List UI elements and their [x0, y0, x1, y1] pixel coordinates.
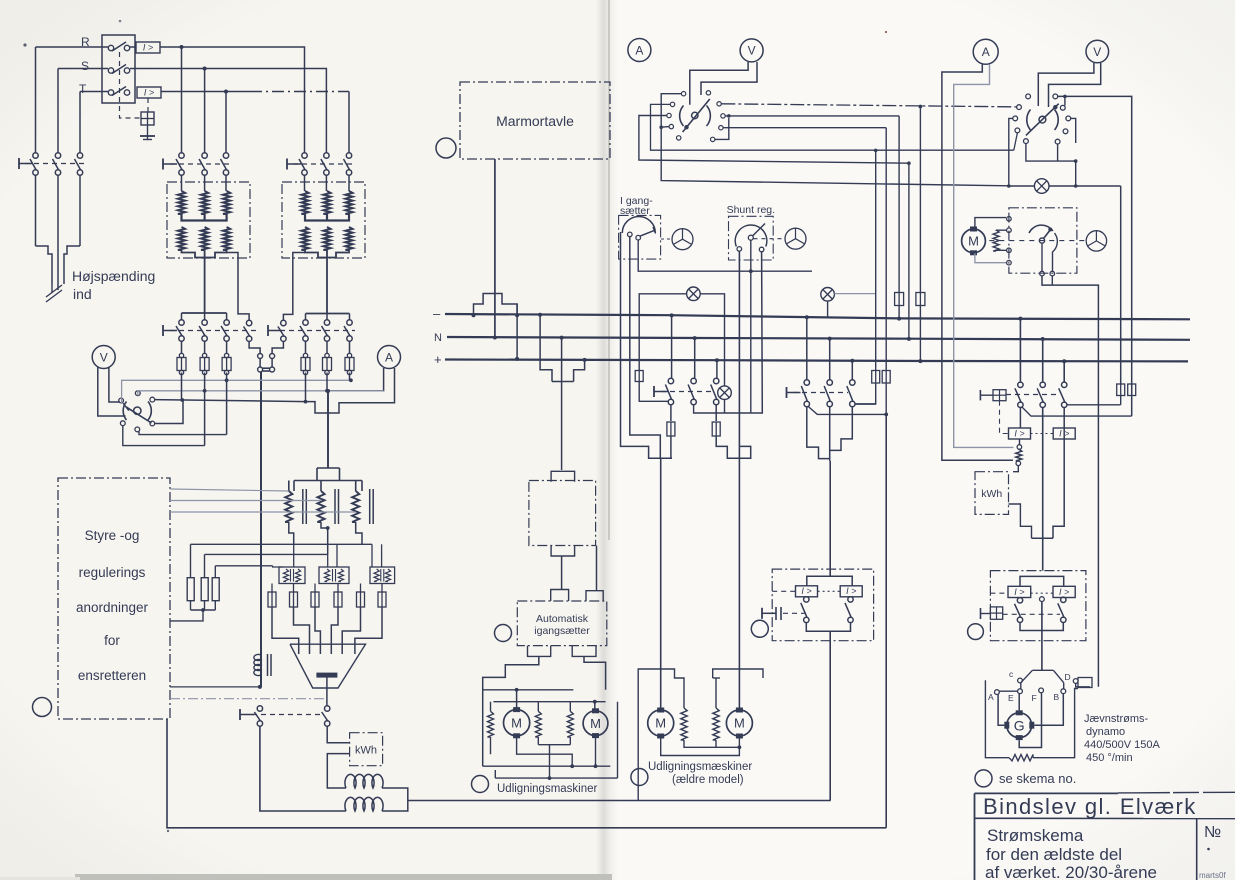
DC switch L — [254, 706, 262, 726]
label kWh right — [981, 488, 1002, 500]
funnel linkage — [793, 392, 848, 394]
wire motor34 bottom — [661, 738, 742, 756]
label dynamo 4 — [1086, 752, 1133, 764]
main breaker box — [102, 35, 135, 103]
transformer T1 primary bus — [182, 214, 227, 221]
wire dist1 feed minus — [670, 313, 674, 378]
wire gen down — [1041, 602, 1043, 671]
terminal F — [1032, 688, 1044, 703]
disconnect actuator HV — [19, 158, 33, 169]
wire LV fuse lead 5 — [325, 341, 329, 375]
fuse feeder b — [882, 371, 890, 384]
marble panel box — [460, 82, 610, 159]
wire R mid drop — [181, 47, 183, 153]
LV switch linkage right — [280, 330, 355, 332]
wire rectifier feeder — [260, 372, 262, 687]
label bus minus — [433, 306, 441, 321]
wire relay split — [807, 576, 852, 586]
svg-text:440/500V 150A: 440/500V 150A — [1084, 739, 1161, 751]
label anordninger — [76, 600, 149, 615]
apparatus top connector — [551, 471, 575, 482]
disconnect switch T1-T — [221, 153, 229, 175]
label Marmortavle — [496, 113, 574, 129]
smoothing reactor — [254, 654, 271, 676]
wire relay out — [829, 631, 831, 800]
wire T2 in R — [304, 175, 306, 191]
label igangsaetter — [534, 625, 590, 637]
title No — [1204, 824, 1221, 841]
wire funnel feed minus — [805, 315, 809, 380]
wire DC negative — [260, 726, 346, 811]
wire coil fuse lead 3 — [314, 584, 316, 593]
wire motor3 frame — [638, 669, 684, 801]
wire coil fuse lead 5 — [360, 584, 362, 593]
wire control to switch — [170, 698, 326, 700]
svg-text:N: N — [434, 332, 442, 344]
svg-text:ind: ind — [73, 286, 92, 302]
label bus plus — [434, 352, 442, 367]
selector SW3 body — [1026, 104, 1059, 136]
transformer T2 secondary winding 2 — [323, 227, 330, 250]
junction ballast — [201, 608, 205, 612]
breaker contact T — [108, 87, 129, 96]
fuse rectifier 1 — [268, 592, 276, 607]
junction tap plus — [583, 358, 587, 362]
wire S phase — [58, 69, 326, 153]
starter-wheel link — [661, 238, 671, 240]
svg-text:M: M — [734, 716, 745, 731]
wire HV-S down — [57, 175, 59, 268]
junction S-mid — [203, 67, 207, 71]
wire HV merge — [36, 246, 81, 290]
svg-text:A: A — [385, 350, 393, 364]
wire SW2 w5 — [721, 104, 1019, 107]
wire reg feeder — [327, 391, 329, 468]
auto starter bottom conn 2 — [572, 646, 596, 657]
svg-text:Marmortavle: Marmortavle — [496, 113, 574, 129]
LV switch 7 — [322, 320, 330, 341]
wire gen merge — [1032, 537, 1054, 539]
junction rail y401 b — [304, 400, 308, 404]
junction reg bottom — [326, 526, 330, 530]
terminal B — [1054, 689, 1066, 702]
disconnect actuator T2 — [287, 159, 301, 170]
junction tap minus — [538, 313, 542, 317]
fuse rectifier 4 — [334, 592, 342, 607]
disconnect switch HV-T — [75, 153, 83, 175]
wire drop x875 — [874, 149, 878, 371]
junction lamp4 a — [1007, 184, 1011, 188]
wire M2 feed — [584, 656, 606, 689]
wire anode 5 — [342, 607, 360, 654]
LV switch 8 — [344, 320, 352, 341]
motor M1 — [503, 707, 529, 738]
svg-text:B: B — [1054, 692, 1060, 702]
wire HV-T down — [79, 175, 81, 246]
wire SW2 w3 — [639, 116, 909, 164]
wire coilbox1 feeds — [273, 544, 294, 567]
label ensretteren — [78, 668, 146, 683]
wire pyramid right drop — [516, 304, 518, 359]
wire shunt drop 1 — [738, 251, 740, 446]
LV switch 4 — [244, 320, 252, 341]
wire M1 feed — [483, 656, 539, 766]
gen breaker cabinet — [990, 571, 1086, 641]
svg-text:Udligningsmæskiner: Udligningsmæskiner — [648, 761, 752, 773]
fuse dist1a — [667, 422, 675, 436]
svg-text:for den ældste del: for den ældste del — [986, 845, 1122, 864]
LV switch 2 — [199, 320, 207, 341]
svg-text:I >: I > — [143, 42, 153, 52]
wire T2 secondary out left — [283, 258, 292, 320]
svg-text:I >: I > — [144, 87, 154, 97]
breaker contact R — [108, 42, 129, 51]
svg-text:Jævnstrøms-: Jævnstrøms- — [1084, 713, 1149, 725]
ammeter A2 — [628, 39, 651, 62]
wire coilbox2 feeds — [328, 544, 337, 567]
junction pyramid right — [515, 313, 519, 317]
svg-text:I >: I > — [846, 586, 856, 596]
disconnect switch T1-S — [199, 153, 207, 175]
transformer T1 primary winding 3 — [223, 191, 230, 214]
junction pyramid left — [472, 313, 476, 317]
signal lamp 4 — [1034, 179, 1049, 194]
wire terminal AE — [999, 690, 1017, 692]
transformer T2 primary winding 2 — [323, 191, 330, 214]
wire LV fuse lead 6 — [347, 341, 351, 375]
svg-text:M: M — [590, 716, 601, 731]
wire LV5 merge — [272, 341, 283, 353]
label udligningsmaskiner 2 — [648, 761, 752, 773]
svg-text:V: V — [100, 350, 108, 364]
wire SW2 w1 — [661, 94, 1009, 186]
dist1 linkage — [661, 391, 712, 393]
label aeldre model — [672, 774, 744, 786]
field circuit — [985, 680, 1078, 761]
disconnect switch HV-R — [30, 153, 38, 175]
voltmeter V3 — [1086, 40, 1109, 63]
label dynamo 3 — [1084, 739, 1161, 751]
label se skema — [999, 771, 1076, 786]
wire funnel diag tap — [808, 407, 886, 415]
wire relay feed — [829, 461, 831, 576]
series reactor 2 — [345, 797, 383, 811]
rectifier tank — [290, 644, 366, 688]
wire SW3 w1 — [1058, 96, 1132, 416]
wire pole1 drop — [181, 373, 183, 401]
DC switch linkage — [252, 714, 320, 716]
revision circle h — [975, 770, 992, 787]
wire tap N — [561, 338, 563, 470]
selector SW2 contacts — [667, 91, 725, 142]
fuse dist1c — [712, 422, 720, 436]
relay T linkage — [147, 98, 149, 112]
auto starter box — [517, 601, 607, 646]
wire lamp2 right — [834, 293, 875, 295]
transformer T2 secondary winding 3 — [345, 227, 352, 250]
starter dial — [622, 217, 655, 240]
wire gen split — [1020, 576, 1064, 585]
revision circle b — [436, 138, 456, 158]
breaker contact S — [108, 65, 129, 74]
junction M2 top — [593, 700, 597, 704]
wire V2 lead b — [701, 62, 757, 95]
node S label — [81, 59, 89, 73]
auto starter top conn 2 — [586, 591, 603, 601]
wire motor1 top bus — [483, 689, 574, 691]
wire T1 LV drops — [182, 313, 227, 320]
wire SW3 w5 — [1071, 118, 1076, 143]
wire funnel feed plus — [850, 359, 854, 380]
label automatisk — [536, 613, 589, 625]
wire control line 2 — [170, 500, 321, 502]
disconnect switch T2-R — [299, 153, 307, 175]
ballast resistor 3 — [212, 566, 219, 610]
junction rail y391 b — [325, 389, 329, 393]
svg-text:Bindslev gl. Elværk: Bindslev gl. Elværk — [983, 794, 1197, 819]
wire A1 lead b — [306, 368, 395, 413]
wire reg bottom 1 — [289, 522, 294, 544]
funnel actuator — [787, 387, 801, 398]
fuse LV 2 — [200, 358, 209, 371]
relay trip link — [783, 612, 806, 614]
wire SW2 w4 — [661, 126, 669, 129]
apparatus box — [529, 481, 596, 546]
svg-text:№: № — [1204, 824, 1221, 841]
label kWh DC — [355, 745, 377, 757]
LV switch 1 — [176, 320, 184, 341]
fuse cutout — [141, 112, 154, 125]
rheostat dial — [1029, 225, 1057, 271]
link terminals — [258, 354, 275, 373]
wire ballast bus — [170, 610, 215, 621]
balance resistor 1 — [681, 708, 687, 740]
M5 rheostat — [993, 228, 1011, 253]
wire M2 lead — [594, 702, 596, 709]
wire G bottom F — [1019, 693, 1041, 748]
transformer T2 primary winding 1 — [301, 191, 308, 214]
wire gen pole1 down — [1019, 407, 1021, 428]
svg-text:for: for — [104, 633, 120, 648]
fuse dist1 — [635, 371, 643, 382]
wire reg top right — [355, 481, 357, 492]
auto starter bottom conn 1 — [528, 646, 551, 657]
disconnect switch T2-S — [321, 153, 329, 175]
wire dist1c down — [715, 405, 717, 422]
wire marble pyramid — [474, 294, 518, 316]
label ind — [73, 286, 92, 302]
wire T1 in R — [181, 175, 183, 191]
junction rail y401 a — [180, 398, 184, 402]
junction pyramid plus — [515, 357, 519, 361]
gen trip linkage 2 — [1003, 613, 1060, 615]
disconnect switch HV-S — [53, 153, 61, 175]
title No dot — [1207, 848, 1210, 851]
contactor coil box 2 — [319, 567, 349, 584]
bus minus — [445, 314, 1190, 319]
gen switch c — [1059, 382, 1067, 407]
wire pole3 drop — [226, 373, 228, 435]
relay I> gen1 — [1009, 428, 1031, 439]
wire G right — [1034, 694, 1063, 726]
label for — [104, 633, 120, 648]
svg-text:marts0f: marts0f — [1199, 871, 1226, 880]
wire funnel feed N — [828, 337, 832, 380]
paper speck 1 — [23, 20, 121, 47]
svg-text:dynamo: dynamo — [1086, 726, 1125, 738]
fuse rectifier 5 — [357, 592, 365, 607]
label styre-og — [85, 528, 140, 543]
label shunt reg — [727, 204, 775, 216]
wire starter drop 2 — [630, 237, 661, 458]
DC switch actuator — [240, 709, 254, 720]
wire T1 in S — [204, 175, 206, 191]
wire SW3 w7 — [1057, 144, 1059, 161]
wire dist1 feed N — [693, 336, 697, 379]
relay switch R — [845, 597, 853, 623]
wire SW3 w2 — [1064, 96, 1066, 105]
dist switch 1a — [665, 378, 673, 404]
svg-text:Højspænding: Højspænding — [72, 268, 155, 284]
relay I> gen2 — [1053, 428, 1075, 439]
transformer T2 secondary winding 1 — [301, 227, 308, 250]
fuse LV 3 — [222, 358, 231, 371]
wire rail y445 — [123, 426, 205, 446]
terminal c — [1009, 669, 1022, 683]
auto starter top conn 1 — [551, 590, 569, 602]
disconnect linkage T1 — [170, 163, 232, 165]
wire motorfeed b — [716, 436, 751, 710]
revision circle d — [472, 776, 489, 793]
disconnect switch T2-T — [344, 153, 352, 175]
relay switch L — [801, 597, 809, 623]
junction rail y380 a — [225, 378, 229, 382]
paper speck 2 — [167, 31, 887, 832]
bus N — [447, 337, 1190, 340]
svg-text:kWh: kWh — [981, 488, 1002, 500]
wire drop x875b — [855, 383, 876, 404]
wire motor4 frame top — [713, 669, 763, 708]
svg-text:Strømskema: Strømskema — [987, 826, 1084, 845]
wire coil fuse lead 1 — [271, 584, 273, 593]
wire DC positive jog — [327, 726, 349, 743]
signal lamp 3 — [718, 386, 732, 400]
wire anode 6 — [355, 607, 382, 654]
wire SW2 w2 — [651, 104, 1014, 150]
wire T2 LV drops — [306, 314, 350, 320]
wire rail y434 — [139, 432, 227, 435]
LV switch actuator left — [163, 325, 177, 336]
wire drop lamp right — [1120, 396, 1122, 405]
ballast resistor 2 — [201, 554, 208, 610]
wire coil fuse lead 6 — [381, 584, 383, 593]
wire gen pole2 feed — [1041, 337, 1045, 382]
relay I> right — [840, 586, 862, 597]
wire lamp3 bottom — [724, 400, 726, 413]
wire M2 bottom — [595, 738, 597, 767]
node R label — [81, 35, 90, 49]
HV feeder arrow — [46, 284, 62, 302]
wire tap plus — [574, 360, 585, 382]
wire gen pole1 feed — [1018, 317, 1022, 382]
svg-text:Styre -og: Styre -og — [85, 528, 140, 543]
svg-text:V: V — [748, 44, 756, 58]
overcurrent relay I> T — [137, 87, 161, 98]
wire DC return — [167, 719, 886, 828]
svg-text:E: E — [1008, 693, 1014, 703]
disconnect linkage HV — [25, 163, 88, 165]
transformer T1 primary winding 2 — [201, 191, 208, 214]
junction T-mid — [224, 90, 228, 94]
wire shunt to kwh — [1013, 466, 1018, 472]
wire LV fuse lead 3 — [224, 341, 228, 375]
wire pole6 drop — [305, 373, 307, 402]
svg-text:Automatisk: Automatisk — [536, 613, 589, 625]
LV switch 6 — [300, 320, 308, 341]
wire V3 lead a — [1038, 63, 1094, 106]
rheostat dash link — [989, 240, 1086, 242]
wire coilbox3 feeds — [372, 544, 382, 567]
gen switch b — [1037, 382, 1045, 407]
motor M4 — [726, 708, 752, 739]
junction lamp4 b — [1074, 184, 1078, 188]
wire lamp4 line — [1009, 185, 1121, 187]
wire terminal D link — [1076, 678, 1092, 688]
fuse rectifier 3 — [311, 592, 319, 607]
svg-text:+: + — [434, 352, 442, 367]
svg-text:I >: I > — [1014, 587, 1024, 597]
wire LV fuse lead 4 — [303, 341, 307, 375]
wire pole8 drop — [349, 373, 351, 381]
wire rail y423 — [155, 401, 183, 424]
wire gen breaker merge — [1020, 622, 1063, 630]
junction M2 lower — [594, 764, 598, 768]
wire pole1 diagonal tap — [1022, 407, 1132, 417]
wire rail y401 — [155, 400, 306, 402]
breaker linkage — [120, 52, 141, 118]
overcurrent relay I> R — [136, 42, 160, 53]
relay I> genR — [1053, 586, 1075, 597]
svg-text:M: M — [968, 234, 979, 249]
svg-text:V: V — [1093, 45, 1101, 59]
wire gen pole2 down — [1042, 407, 1044, 570]
label igang 1 — [620, 195, 653, 207]
wire motor1 lower bus — [483, 765, 611, 767]
LV switch linkage left — [170, 330, 258, 332]
fuse bus b — [916, 293, 925, 306]
signal lamp 2 — [821, 288, 835, 302]
meter shunt — [1016, 439, 1022, 466]
wire drop x899b — [897, 306, 901, 321]
ammeter A1 — [378, 346, 401, 369]
junction lower bus — [570, 764, 574, 768]
svg-text:Udligningsmaskiner: Udligningsmaskiner — [497, 783, 598, 795]
fuse feeder a — [872, 371, 880, 384]
reg transformer core 1 — [303, 489, 307, 524]
wire relay merge — [806, 623, 850, 632]
disconnect linkage T2 — [293, 163, 355, 165]
wire LV fuse lead 1 — [179, 341, 183, 375]
balance resistor 2 — [713, 708, 719, 740]
contactor coil box 1 — [279, 567, 305, 584]
wire drop x920b — [918, 306, 922, 364]
wire V3 lead b — [1049, 63, 1101, 107]
junction SW3 w7 — [1074, 159, 1078, 163]
transformer T1 primary winding 1 — [178, 191, 185, 214]
svg-text:anordninger: anordninger — [76, 600, 149, 615]
title tiny — [1199, 871, 1226, 880]
fuse lamp right — [1117, 384, 1125, 396]
